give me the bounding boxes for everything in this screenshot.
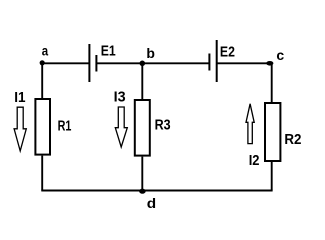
- wire c down to R2: [271, 63, 273, 102]
- wire top segment E1 to b: [96, 62, 142, 64]
- resistor R1: [35, 99, 71, 155]
- wire R3 down to node d: [141, 157, 143, 192]
- svg-text:I3: I3: [114, 89, 126, 105]
- svg-text:b: b: [146, 45, 155, 61]
- node a: [40, 42, 49, 65]
- node c: [266, 47, 284, 66]
- wire top segment a to E1: [42, 62, 89, 64]
- svg-text:d: d: [147, 195, 156, 211]
- wire top segment b to E2: [142, 62, 209, 64]
- node b: [140, 45, 155, 66]
- svg-text:I1: I1: [14, 90, 25, 106]
- svg-text:E1: E1: [101, 43, 116, 59]
- wire a down to R1: [41, 63, 43, 98]
- svg-text:E2: E2: [220, 45, 235, 61]
- wire R2 down to rail: [271, 162, 273, 191]
- svg-text:a: a: [42, 42, 49, 58]
- svg-text:R2: R2: [284, 132, 301, 148]
- wire R1 down to rail: [41, 156, 43, 191]
- current arrow I3: [114, 89, 128, 147]
- svg-text:R1: R1: [58, 119, 72, 135]
- resistor R2: [265, 103, 302, 161]
- svg-text:I2: I2: [249, 153, 260, 169]
- resistor R3: [135, 100, 171, 156]
- wire b down to R3: [141, 63, 143, 99]
- svg-text:R3: R3: [155, 117, 171, 133]
- battery E2: [209, 40, 235, 82]
- current arrow I1: [14, 90, 26, 151]
- wire bottom rail: [41, 190, 272, 192]
- wire top segment E2 to c: [217, 62, 270, 64]
- current arrow I2: [246, 104, 260, 169]
- node d: [139, 189, 156, 211]
- svg-text:c: c: [276, 47, 284, 63]
- battery E1: [89, 43, 115, 82]
